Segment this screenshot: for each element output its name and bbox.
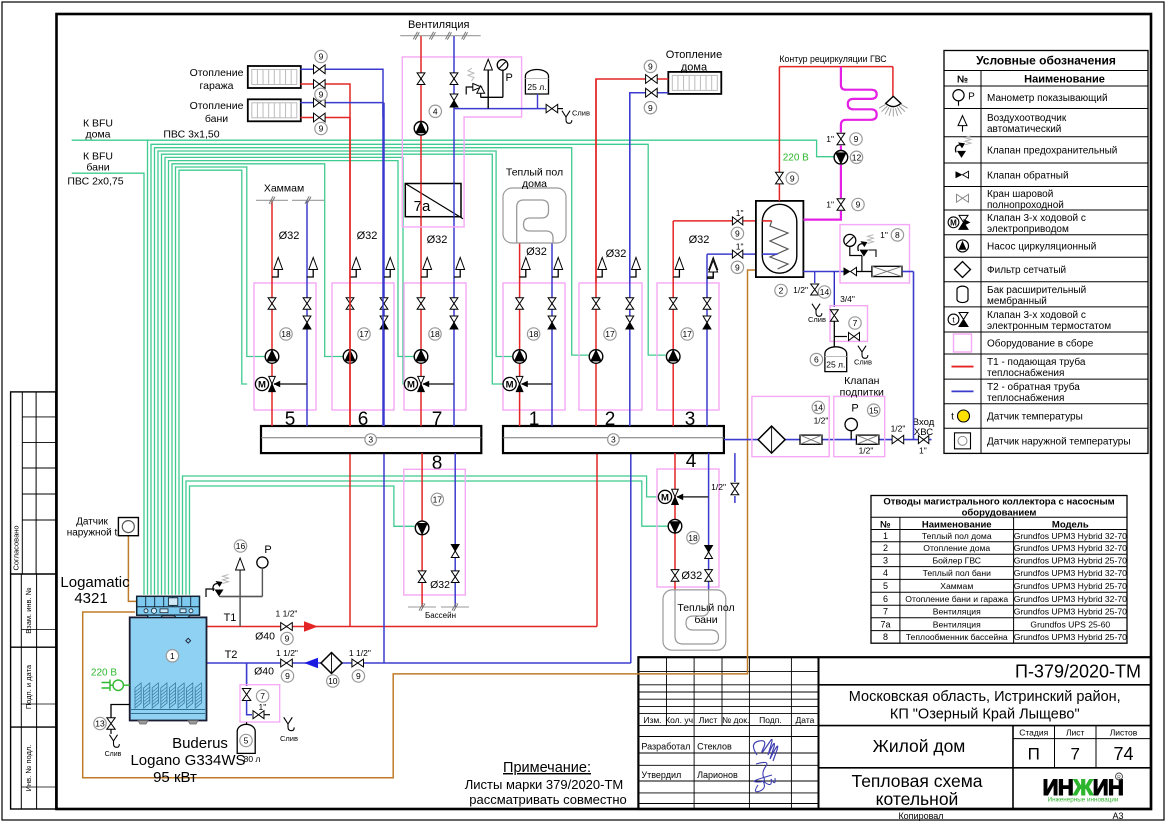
svg-text:7: 7 [432,409,443,430]
svg-text:9: 9 [854,134,859,144]
banya radiator supply [300,117,350,119]
label circle 3 [365,434,377,446]
svg-text:13: 13 [95,719,105,729]
3-way valve with motor M [522,383,552,385]
svg-text:Grundfos UPM3 Hybrid 25-70: Grundfos UPM3 Hybrid 25-70 [1014,607,1127,617]
svg-text:Logano G334WS: Logano G334WS [130,752,245,769]
label circle 17 [431,493,443,505]
ball valve [671,570,679,576]
svg-text:Наименование: Наименование [1024,74,1105,86]
recirculation coil magenta [841,67,877,133]
signature scribbles [753,739,777,761]
svg-text:Grundfos UPM3 Hybrid 32-70: Grundfos UPM3 Hybrid 32-70 [1014,594,1127,604]
svg-text:Теплый пол бани: Теплый пол бани [923,568,991,578]
automatic air vent [598,258,607,270]
svg-text:7: 7 [853,318,858,328]
pipe from tank return [707,253,756,255]
svg-text:9: 9 [319,89,324,99]
svg-text:2: 2 [883,543,888,553]
wire K BFU bani [72,173,144,595]
circuit 7 ventilation supply pipe [420,217,422,426]
svg-text:Logamatic: Logamatic [60,574,130,591]
ball valve [705,570,713,576]
svg-text:3/4": 3/4" [840,294,855,304]
svg-text:Ø32: Ø32 [357,230,378,242]
svg-text:9: 9 [356,671,361,681]
svg-text:Датчик: Датчик [76,517,108,528]
svg-text:Отводы магистрального коллекто: Отводы магистрального коллектора с насос… [883,497,1114,508]
svg-text:Дата: Дата [796,715,815,725]
pipe break mark [256,199,288,201]
3-way valve with motor M [677,496,709,498]
svg-text:Вентиляция: Вентиляция [933,607,981,617]
label circle 18 [280,328,292,340]
drain valve 14 [814,272,816,284]
automatic air vent [709,258,718,270]
circuit 2 house supply pipe [595,79,597,426]
flow arrow T1 [304,621,318,631]
svg-text:Согласовано: Согласовано [11,525,20,570]
ball valve [516,298,524,304]
3-way valve with motor M [423,383,454,385]
svg-text:8: 8 [883,632,888,642]
svg-text:Grundfos UPM3 Hybrid 32-70: Grundfos UPM3 Hybrid 32-70 [1014,543,1127,553]
svg-text:25 л.: 25 л. [826,360,845,370]
svg-text:Ø40: Ø40 [254,666,274,678]
ball valve [646,75,652,84]
circuit 1 floor-house return pipe [551,243,553,426]
riser T1 to left manifold / circuit 6 [349,453,351,626]
svg-text:3: 3 [685,409,696,430]
svg-text:Клапан 3-х ходовой с: Клапан 3-х ходовой с [987,310,1086,321]
circulation pump [589,350,603,364]
svg-text:Вентиляция: Вентиляция [933,619,981,629]
svg-text:оборудованием: оборудованием [962,508,1037,519]
controller stands [147,615,163,617]
circuit 5 hammam return pipe [306,200,308,426]
circuit 4 supply pipe [674,453,676,590]
label circle 17 [604,328,616,340]
circuit 4 return pipe [708,453,710,590]
wire K BFU doma + pump12 supply [72,140,834,157]
svg-text:18: 18 [529,329,539,339]
svg-text:Отопление: Отопление [190,67,244,79]
strainer filter [321,653,342,674]
svg-text:5: 5 [285,409,296,430]
circuit 7 ventilation assembly box [404,283,466,410]
svg-text:Р: Р [264,544,271,556]
ball valve [732,250,737,258]
tank hot outlet riser [778,67,780,201]
svg-text:подпитки: подпитки [840,387,884,399]
svg-text:9: 9 [856,200,861,210]
svg-text:Ø32: Ø32 [279,230,300,242]
check valve [703,316,711,323]
label circle 4 [429,105,441,117]
svg-text:80 л: 80 л [244,754,261,764]
svg-text:№ док.: № док. [722,715,749,725]
circuit 3 dhw supply pipe [672,221,674,426]
svg-text:№: № [880,520,891,531]
label circle 18 [429,328,441,340]
drain (sliv) [284,717,294,730]
svg-text:Ø32: Ø32 [606,248,627,260]
title block [638,657,1151,809]
ball valve [776,172,784,178]
svg-text:8: 8 [895,230,900,240]
ball valve [626,298,634,304]
circulation pump [414,122,428,136]
ball valve [451,571,459,577]
boiler Buderus body [130,617,207,720]
ball valve [380,298,388,304]
svg-text:14: 14 [820,287,830,297]
circulation pump [414,350,428,364]
air vent on return elbow [709,261,718,273]
svg-text:Ø32: Ø32 [526,246,547,258]
ball valve [418,571,426,577]
ball valve [314,80,320,89]
vent expansion tank 25l [525,70,548,94]
svg-text:1": 1" [736,208,744,218]
makeup box 1 [752,396,829,456]
circuit 8 return pipe [454,453,456,607]
circulation pump [343,350,357,364]
svg-text:Стеклов: Стеклов [697,742,732,752]
safety group box DHW [840,225,910,283]
label circle 17 [358,328,370,340]
svg-text:ПВС 2х0,75: ПВС 2х0,75 [67,176,123,188]
svg-text:Т2: Т2 [225,649,238,661]
DHW tank boiler [756,201,804,277]
pipe break mark [408,606,436,608]
floor heating house box [503,188,566,243]
control wire [176,167,265,595]
svg-text:Взам. инв. №: Взам. инв. № [24,587,33,633]
svg-text:Слив: Слив [572,109,590,118]
svg-text:Лист: Лист [699,715,718,725]
svg-text:Р: Р [851,403,858,415]
svg-text:18: 18 [281,329,291,339]
heat exchanger 7a [405,184,461,217]
svg-text:Р: Р [506,72,513,84]
brown wire controller to DHW tank sensor [83,270,756,778]
collector outlets table [871,496,1127,644]
svg-text:Клапан обратный: Клапан обратный [987,169,1069,181]
pressure gauge [844,234,856,246]
svg-text:2: 2 [779,286,784,296]
svg-text:Наименование: Наименование [922,520,992,531]
svg-text:автоматический: автоматический [987,124,1061,135]
label circle 9 [644,102,656,114]
label circle 18 [687,532,699,544]
svg-text:Ø40: Ø40 [255,631,275,643]
svg-text:дома: дома [681,62,708,74]
circulation pump [666,350,680,364]
svg-text:КП "Озерный Край Лыщево": КП "Озерный Край Лыщево" [890,707,1080,723]
check valve [450,316,458,323]
svg-text:Клапан предохранительный: Клапан предохранительный [987,146,1117,157]
label circle 14 [818,286,830,298]
label circle 9 [281,670,293,682]
svg-text:Ø32: Ø32 [427,234,448,246]
svg-text:t: t [951,412,954,423]
wire to pump 4 [186,481,668,595]
automatic air vent [521,258,530,270]
ball valve [837,199,845,205]
drain (sliv) [562,111,572,124]
automatic air vent [423,258,432,270]
vent return pipe [453,36,455,184]
pressure gauge [845,418,857,430]
label circle 17 [681,328,693,340]
flow element [800,435,822,444]
control wire [158,151,512,595]
svg-text:R: R [1117,775,1121,781]
svg-text:Теплый пол: Теплый пол [506,167,563,179]
svg-text:9: 9 [735,228,740,238]
check valve [303,316,311,323]
drain stub right of manifold [734,453,736,482]
automatic air vent [309,258,318,270]
tank cold water line [803,271,843,273]
svg-text:9: 9 [319,124,324,134]
drain (sliv) [109,735,119,748]
label circle 2 [775,284,787,296]
circuit 6 radiators return pipe [383,103,385,426]
ball valve [548,298,556,304]
pipe break mark [292,199,324,201]
svg-text:Кол. уч.: Кол. уч. [665,715,695,725]
svg-text:Инв. № подл.: Инв. № подл. [24,745,33,792]
automatic air vent [456,258,465,270]
svg-text:Инженерные инновации: Инженерные инновации [1048,797,1119,804]
circuit 8 assembly box [404,469,466,595]
pipe T1 supply main [207,626,598,628]
svg-text:17: 17 [359,329,369,339]
svg-text:Ø32: Ø32 [689,234,710,246]
svg-text:Т2 - обратная труба: Т2 - обратная труба [987,381,1080,393]
ball valve [837,133,845,139]
svg-text:1": 1" [826,134,834,144]
ball valve [546,104,552,112]
svg-text:3: 3 [611,435,616,445]
ball valve [417,298,425,304]
svg-text:Отопление дома: Отопление дома [923,543,990,553]
svg-text:бани: бани [205,113,228,125]
svg-text:1": 1" [736,241,744,251]
safety valve [965,136,971,145]
ball valve [281,623,287,631]
svg-text:220 В: 220 В [783,153,809,164]
svg-text:1 1/2": 1 1/2" [276,609,298,619]
radiator [248,99,301,121]
automatic air vent [632,258,641,270]
label circle 3 [608,434,620,446]
svg-text:рассматривать совместно: рассматривать совместно [469,792,627,807]
svg-text:Grundfos UPM3 Hybrid 25-70: Grundfos UPM3 Hybrid 25-70 [1014,581,1127,591]
svg-text:12: 12 [852,152,862,162]
svg-text:25 л.: 25 л. [527,82,546,92]
circuit 4 assembly box [657,469,719,587]
vent L-shaped assembly box [402,57,521,227]
svg-text:1: 1 [170,651,175,661]
svg-text:Фильтр сетчатый: Фильтр сетчатый [987,265,1066,276]
ball valve [107,718,115,724]
svg-text:Московская область, Истринский: Московская область, Истринский район, [849,689,1121,705]
banya radiator return [300,103,383,118]
svg-text:Изм.: Изм. [643,715,661,725]
ball valve [892,435,898,443]
ball valve [253,711,259,719]
boiler safety group riser [239,566,241,627]
svg-text:M: M [661,492,669,503]
svg-text:Стадия: Стадия [1019,728,1048,738]
circulation pump [415,521,429,535]
brown wire outdoor sensor to controller [128,536,136,601]
svg-text:9: 9 [285,634,290,644]
svg-text:15: 15 [869,405,879,415]
garage radiator supply [300,84,350,118]
ball valve [731,483,739,489]
label circle 5 [240,734,252,746]
svg-text:гаража: гаража [200,80,234,92]
ball valve [303,298,311,304]
expansion tank 25l [825,347,847,372]
ball valve [314,98,320,107]
label circle 9 [786,172,798,184]
svg-text:№: № [957,75,968,86]
ball valve [811,284,819,290]
svg-text:Вентиляция: Вентиляция [408,19,470,31]
svg-text:9: 9 [790,173,795,183]
ball valve [669,298,677,304]
line to hvs riser [902,271,914,273]
expansion tank 80l [237,724,255,753]
svg-text:Buderus: Buderus [172,735,228,752]
control wire [162,154,505,595]
automatic air vent [675,258,684,270]
svg-text:ПВС 3х1,50: ПВС 3х1,50 [163,129,219,141]
control wire [155,148,589,595]
svg-text:бани: бани [86,162,109,174]
circuit 7 ventilation return pipe [453,217,455,426]
automatic air vent [352,258,361,270]
ball valve [849,333,855,341]
expansion group box [830,306,868,342]
svg-text:Р: Р [968,91,975,102]
automatic air vent [274,258,283,270]
svg-text:M: M [506,379,514,390]
svg-text:полнопроходной: полнопроходной [987,200,1064,211]
riser T1 to right manifold [596,453,598,626]
svg-text:Бойлер ГВС: Бойлер ГВС [933,556,982,566]
svg-text:Примечание:: Примечание: [503,760,591,776]
svg-text:M: M [258,379,266,390]
check valve [626,316,634,323]
drain (sliv) [858,346,868,359]
pipe to tank supply [673,220,756,222]
ball valve [732,217,737,225]
svg-text:1": 1" [259,702,267,712]
circuit 3 dhw assembly box [657,283,719,410]
control wire [169,161,414,595]
svg-text:1/2": 1/2" [793,285,808,295]
svg-text:Слив: Слив [105,751,122,758]
svg-text:7а: 7а [414,198,431,215]
label circle 14 [812,401,824,413]
control wire [179,170,247,595]
ball valve [268,298,276,304]
svg-text:1/2": 1/2" [814,416,829,426]
vent expansion header [454,108,538,110]
ball valve [346,298,354,304]
boiler drain valve 13 [111,705,130,718]
legend table [944,51,1148,454]
circulation pump [834,151,848,165]
svg-text:Теплый пол дома: Теплый пол дома [922,531,992,541]
ball valve [918,436,923,444]
svg-text:Grundfos UPM3 Hybrid 32-70: Grundfos UPM3 Hybrid 32-70 [1014,568,1127,578]
makeup water line [724,439,914,441]
svg-text:18: 18 [430,329,440,339]
svg-text:Отопление: Отопление [190,100,244,112]
air vent [484,59,492,70]
ball valve [450,298,458,304]
radiator [248,66,301,88]
pressure gauge [257,557,268,568]
svg-text:Бак расширительный: Бак расширительный [987,285,1086,296]
safety valve [223,575,229,584]
label circle 9 [315,122,327,134]
svg-text:Ларионов: Ларионов [697,770,738,780]
house radiator return [630,93,669,283]
svg-text:1/2": 1/2" [711,482,726,492]
svg-text:9: 9 [285,671,290,681]
svg-text:Слив: Слив [280,734,298,743]
Logamatic controller [137,596,200,615]
shower head [892,67,894,97]
svg-text:1/2": 1/2" [891,424,906,434]
check valve dhw line [844,267,851,275]
label circle 9 [315,88,327,100]
svg-text:Подп. и дата: Подп. и дата [24,664,33,709]
riser T2 right manifold [630,453,632,663]
svg-text:Отопление бани и гаража: Отопление бани и гаража [905,594,1008,604]
svg-text:Теплообменник бассейна: Теплообменник бассейна [906,632,1008,642]
house radiator supply [596,79,668,283]
svg-text:17: 17 [682,329,692,339]
svg-text:14: 14 [814,402,824,412]
label circle 7 [849,317,861,329]
svg-text:1 1/2": 1 1/2" [276,648,298,658]
circuit 1 floor-house supply pipe [519,243,521,426]
makeup box 2 valve podpitki [834,396,885,456]
control wire [172,164,343,595]
circuit 2 house assembly box [579,283,642,410]
svg-text:электронным термостатом: электронным термостатом [987,321,1111,332]
vent safety group [487,70,489,109]
svg-text:Grundfos UPM3 Hybrid 25-70: Grundfos UPM3 Hybrid 25-70 [1014,632,1127,642]
left distribution manifold [261,426,481,453]
svg-text:Насос циркуляционный: Насос циркуляционный [987,242,1096,253]
circuit 5 hammam assembly box [254,283,316,410]
svg-text:электроприводом: электроприводом [987,224,1069,235]
left stamp strip [11,392,56,809]
svg-text:Клапан 3-х ходовой с: Клапан 3-х ходовой с [987,213,1086,224]
svg-text:3: 3 [883,556,888,566]
ball valve [314,113,320,122]
